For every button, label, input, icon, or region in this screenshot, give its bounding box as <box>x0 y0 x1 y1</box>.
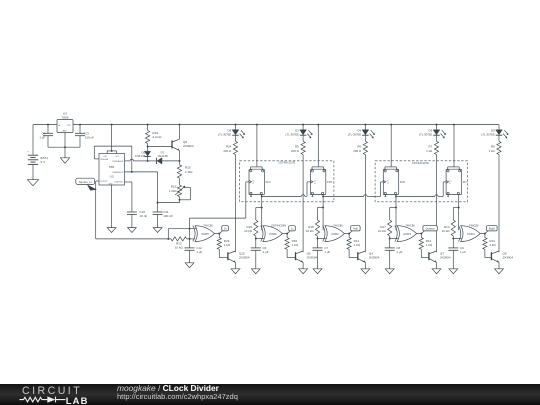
wire <box>364 155 366 253</box>
resistor R7 <box>436 135 438 141</box>
wire <box>190 217 246 219</box>
diode D6 <box>145 151 151 156</box>
wire <box>235 262 237 268</box>
wire <box>344 233 349 235</box>
wire <box>125 181 132 183</box>
LED D4 <box>364 124 366 126</box>
resistor R20 <box>179 161 181 165</box>
resistor R22 <box>171 237 187 241</box>
wire <box>389 236 391 239</box>
ground <box>495 269 504 274</box>
node Quarter <box>421 231 424 234</box>
ground <box>432 269 441 274</box>
capacitor C4 <box>47 124 49 126</box>
regulator U2 <box>57 120 73 133</box>
resistor R18 <box>317 208 319 221</box>
IC box CD74HC107E (FF6 FF7) <box>375 161 467 202</box>
LED D3 <box>302 124 304 126</box>
diode D7 <box>148 160 157 162</box>
wire <box>282 233 287 235</box>
resistor R5 <box>302 135 304 141</box>
wire <box>73 124 499 126</box>
ground <box>153 228 162 233</box>
ground <box>313 269 322 274</box>
transistor Q8 <box>148 146 172 148</box>
resistor R17 <box>389 208 391 221</box>
capacitor C9 <box>452 239 454 248</box>
XOR gate XOR1 <box>261 226 263 242</box>
capacitor C3 <box>79 124 81 126</box>
ground <box>231 269 240 274</box>
transistor Q7 <box>420 249 422 257</box>
resistor R11 <box>348 234 350 238</box>
ground <box>251 269 260 274</box>
wire <box>125 171 158 173</box>
battery BAT1 <box>32 125 34 155</box>
wire <box>364 262 366 268</box>
wire <box>417 233 422 235</box>
node Eigth <box>485 231 488 234</box>
IC box CD74HC107E (FF4 FF5) <box>240 161 334 202</box>
wire <box>167 229 169 239</box>
node 1x <box>287 231 290 234</box>
ground <box>27 180 38 186</box>
wire <box>215 233 220 235</box>
ground <box>60 158 69 163</box>
transistor Q10 <box>218 249 220 257</box>
ground <box>361 269 370 274</box>
wire <box>235 155 237 253</box>
ground <box>449 269 458 274</box>
capacitor C6 <box>255 239 257 248</box>
wire feed to XOR2 <box>322 194 324 230</box>
op-amp U3 555 timer <box>99 154 125 186</box>
wire <box>255 236 257 239</box>
node Half <box>349 231 352 234</box>
capacitor C7 <box>317 239 319 248</box>
resistor R23 <box>218 234 220 238</box>
LED D5 <box>436 124 438 126</box>
wire <box>111 185 113 228</box>
wire <box>436 262 438 268</box>
XOR gate XOR3 <box>395 226 397 242</box>
wire <box>436 155 438 253</box>
wire <box>452 236 454 239</box>
wire <box>179 197 181 203</box>
potentiometer R21 <box>179 178 181 185</box>
flip-flop FF4 <box>256 124 258 126</box>
wire <box>498 262 500 268</box>
resistor R24 <box>235 135 237 141</box>
ground <box>128 228 137 233</box>
resistor R8 <box>498 135 500 141</box>
resistor R19 <box>147 124 149 126</box>
wire <box>33 124 57 126</box>
node 2x <box>219 231 222 234</box>
wire feed to XOR3 <box>395 194 397 230</box>
ground <box>185 263 194 268</box>
transistor Q4 <box>348 249 350 257</box>
resistor R16 <box>255 208 257 221</box>
wire <box>302 155 304 253</box>
wire <box>111 124 113 126</box>
transistor Q6 <box>286 249 288 257</box>
wire <box>94 158 99 160</box>
XOR gate XOR5 <box>193 226 195 242</box>
node Square_In <box>76 178 95 184</box>
ground <box>107 228 116 233</box>
resistor R13 <box>484 234 486 238</box>
resistor R15 <box>286 234 288 238</box>
capacitor C11 <box>157 203 159 212</box>
capacitor C8 <box>389 239 391 248</box>
wire feed to XOR4 <box>458 194 460 230</box>
resistor R6 <box>364 135 366 141</box>
capacitor C10 <box>127 211 137 213</box>
LED D8 <box>235 124 237 126</box>
LED D9 <box>498 125 500 130</box>
wire <box>317 236 319 239</box>
wire <box>147 144 149 147</box>
flip-flop FF6 <box>390 124 392 126</box>
wire <box>187 238 195 240</box>
wire feed to XOR1 <box>261 194 263 230</box>
XOR gate XOR4 <box>459 226 461 242</box>
ground <box>299 269 308 274</box>
wire <box>395 194 397 196</box>
XOR gate XOR2 <box>323 226 325 242</box>
wire <box>498 155 500 253</box>
wire <box>302 262 304 268</box>
wire <box>96 180 99 182</box>
transistor Q9 <box>484 249 486 257</box>
node RST/VCC tie <box>107 150 116 152</box>
ground <box>385 269 394 274</box>
wire <box>480 233 485 235</box>
capacitor C12 <box>189 239 191 248</box>
flip-flop FF5 <box>317 124 319 126</box>
wire <box>48 146 80 148</box>
wire <box>125 160 131 162</box>
CircuitLab logo <box>22 385 82 397</box>
flip-flop FF7 <box>453 124 455 126</box>
resistor R14 <box>452 208 454 221</box>
resistor R12 <box>420 234 422 238</box>
wire <box>322 194 324 196</box>
wire <box>261 194 263 196</box>
